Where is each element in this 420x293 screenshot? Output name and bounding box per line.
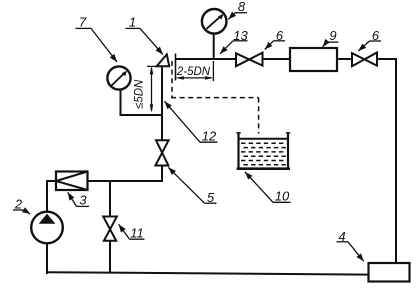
svg-text:11: 11 — [130, 226, 144, 241]
valve 6 (left, horizontal) — [236, 53, 263, 67]
label 10 — [245, 172, 291, 204]
label 9 — [323, 28, 339, 47]
tank 10 — [236, 133, 290, 170]
wire: right vertical pipe down to tank4 — [395, 58, 397, 264]
valve 5 (vertical) — [155, 140, 168, 165]
wire: main vertical pipe nozzle to valve5 — [161, 66, 163, 141]
label 7 — [76, 15, 118, 63]
tank 4 — [369, 263, 410, 282]
flow meter 9 — [290, 48, 337, 71]
wire: top pipe endcap to valve6a — [176, 58, 237, 60]
svg-text:9: 9 — [329, 28, 336, 43]
gauge 7 — [107, 66, 130, 89]
svg-text:3: 3 — [79, 193, 87, 208]
wire: gauge7 stem down — [120, 89, 122, 116]
wire: pipe end cap / dimension extension — [175, 54, 177, 81]
jet trajectory dashed line to tank 10 — [171, 61, 259, 134]
svg-text:2-5DN: 2-5DN — [176, 66, 211, 78]
gauge 8 — [202, 9, 227, 34]
wire: branch down to valve11 — [109, 181, 111, 217]
label 4 — [337, 229, 364, 262]
wire: valve11 bottom to bottom line — [109, 240, 111, 273]
dimension &#8804;5DN — [134, 66, 158, 112]
wire: filter left to pump corner — [46, 180, 56, 182]
pump 2 — [31, 212, 63, 244]
label 13 — [220, 28, 249, 54]
wire: valve6a to meter9 — [262, 58, 290, 60]
label 3 — [68, 192, 89, 207]
wire: valve5 bottom to corner — [161, 165, 163, 182]
wire: pump bottom down — [46, 242, 48, 274]
svg-text:8: 8 — [238, 0, 246, 14]
wire: corner horizontal to filter — [87, 180, 163, 182]
wire: down into pump top — [46, 181, 48, 213]
valve 11 (vertical) — [103, 217, 117, 241]
label 6 (right valve) — [358, 28, 381, 51]
wire: bottom horizontal line to tank4 — [46, 272, 369, 274]
valve 6 (right, horizontal) — [352, 53, 377, 67]
label 8 — [228, 0, 247, 19]
label 5 — [168, 167, 216, 205]
svg-text:2: 2 — [14, 197, 23, 212]
label 6 (left valve) — [265, 28, 285, 50]
dimension 2-5DN — [176, 61, 214, 81]
nozzle 1 (cone on pipe top) — [157, 54, 170, 66]
svg-text:7: 7 — [79, 15, 87, 30]
svg-text:≤5DN: ≤5DN — [134, 79, 146, 109]
wire: gauge7 horizontal to main pipe — [120, 114, 164, 116]
svg-text:10: 10 — [275, 189, 290, 204]
filter 3 — [56, 172, 88, 191]
wire: valve6b to right corner — [377, 58, 398, 60]
label 11 — [119, 224, 145, 240]
label 1 — [126, 15, 164, 55]
svg-text:1: 1 — [129, 15, 136, 30]
svg-text:12: 12 — [202, 129, 217, 144]
wire: meter9 to valve6b — [336, 58, 353, 60]
label 12 — [164, 101, 217, 143]
wire: gauge8 stem — [213, 33, 215, 60]
label 2 — [13, 197, 30, 215]
